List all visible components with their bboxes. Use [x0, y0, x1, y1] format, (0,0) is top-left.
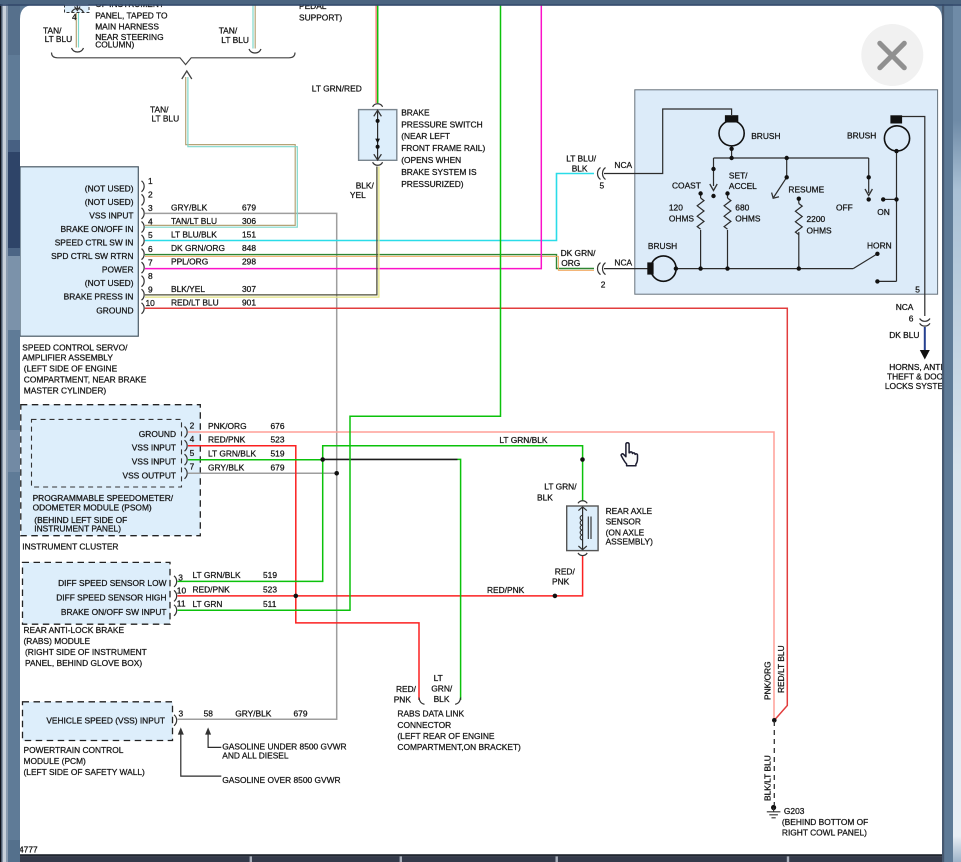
svg-text:LT: LT: [434, 673, 443, 683]
svg-text:RED/LT BLU: RED/LT BLU: [171, 297, 219, 307]
svg-text:3: 3: [148, 203, 153, 213]
svg-text:RESUME: RESUME: [788, 185, 824, 195]
svg-text:HORNS, ANTI-: HORNS, ANTI-: [889, 362, 946, 372]
svg-text:THEFT & DOOR: THEFT & DOOR: [887, 371, 949, 381]
svg-text:680: 680: [735, 202, 749, 212]
svg-text:YEL: YEL: [350, 190, 366, 200]
svg-text:MAIN HARNESS: MAIN HARNESS: [95, 21, 159, 31]
svg-text:RED/LT BLU: RED/LT BLU: [776, 645, 786, 693]
svg-text:COMPARTMENT, NEAR BRAKE: COMPARTMENT, NEAR BRAKE: [24, 375, 147, 385]
svg-text:120: 120: [669, 202, 683, 212]
svg-text:8: 8: [148, 271, 153, 281]
svg-text:519: 519: [263, 570, 277, 580]
svg-text:BLK: BLK: [537, 492, 553, 502]
svg-text:LT BLU: LT BLU: [152, 114, 180, 124]
svg-text:4: 4: [148, 217, 153, 227]
svg-text:BRAKE PRESS IN: BRAKE PRESS IN: [64, 292, 134, 302]
svg-text:4: 4: [72, 12, 77, 22]
svg-text:PNK/ORG: PNK/ORG: [763, 661, 773, 700]
svg-text:BLK: BLK: [572, 164, 588, 174]
svg-text:LT GRN/BLK: LT GRN/BLK: [499, 435, 548, 445]
svg-text:2: 2: [601, 280, 606, 290]
svg-text:RED/PNK: RED/PNK: [487, 585, 525, 595]
svg-text:SPD CTRL SW RTRN: SPD CTRL SW RTRN: [51, 251, 133, 261]
svg-text:OHMS: OHMS: [807, 225, 833, 235]
svg-text:DIFF SPEED SENSOR LOW: DIFF SPEED SENSOR LOW: [58, 578, 167, 588]
svg-text:5: 5: [600, 181, 605, 191]
svg-text:ODOMETER MODULE (PSOM): ODOMETER MODULE (PSOM): [33, 502, 152, 512]
svg-text:10: 10: [146, 298, 156, 308]
svg-text:PANEL, BEHIND GLOVE BOX): PANEL, BEHIND GLOVE BOX): [25, 658, 142, 668]
svg-text:523: 523: [263, 584, 277, 594]
svg-text:2: 2: [190, 420, 195, 430]
svg-text:VSS INPUT: VSS INPUT: [89, 210, 133, 220]
svg-text:LT GRN/BLK: LT GRN/BLK: [208, 449, 257, 459]
svg-text:OHMS: OHMS: [735, 214, 761, 224]
svg-text:SUPPORT): SUPPORT): [299, 12, 342, 22]
svg-text:VEHICLE SPEED (VSS) INPUT: VEHICLE SPEED (VSS) INPUT: [46, 715, 165, 725]
svg-text:6: 6: [148, 244, 153, 254]
svg-text:ORG: ORG: [561, 258, 580, 268]
svg-text:NCA: NCA: [614, 160, 632, 170]
svg-text:RIGHT COWL PANEL): RIGHT COWL PANEL): [782, 827, 867, 837]
svg-text:COAST: COAST: [672, 180, 701, 190]
svg-text:(LEFT SIDE OF SAFETY WALL): (LEFT SIDE OF SAFETY WALL): [24, 767, 146, 777]
svg-text:RED/PNK: RED/PNK: [208, 435, 246, 445]
svg-text:10: 10: [177, 586, 187, 596]
svg-text:TAN/: TAN/: [219, 26, 238, 36]
svg-text:GRY/BLK: GRY/BLK: [171, 203, 208, 213]
svg-text:HORN: HORN: [867, 241, 892, 251]
svg-text:RED/PNK: RED/PNK: [193, 584, 231, 594]
svg-text:BRAKE SYSTEM IS: BRAKE SYSTEM IS: [401, 167, 477, 177]
svg-text:BRUSH: BRUSH: [751, 131, 780, 141]
svg-text:LOCKS SYSTEM: LOCKS SYSTEM: [885, 381, 950, 391]
svg-text:3: 3: [179, 708, 184, 718]
svg-text:RABS DATA LINK: RABS DATA LINK: [397, 708, 464, 718]
svg-text:DK GRN/ORG: DK GRN/ORG: [171, 243, 225, 253]
svg-text:DIFF SPEED SENSOR HIGH: DIFF SPEED SENSOR HIGH: [56, 592, 166, 602]
svg-text:307: 307: [242, 284, 256, 294]
svg-text:151: 151: [242, 230, 256, 240]
svg-text:7: 7: [190, 462, 195, 472]
svg-text:BLK/YEL: BLK/YEL: [171, 284, 205, 294]
svg-text:SPEED CONTROL SERVO/: SPEED CONTROL SERVO/: [22, 343, 128, 353]
svg-text:PRESSURIZED): PRESSURIZED): [401, 179, 464, 189]
svg-text:BRAKE: BRAKE: [401, 107, 430, 117]
svg-text:AMPLIFIER ASSEMBLY: AMPLIFIER ASSEMBLY: [22, 352, 113, 362]
svg-text:511: 511: [263, 599, 277, 609]
svg-text:679: 679: [294, 708, 308, 718]
svg-text:(RABS) MODULE: (RABS) MODULE: [24, 636, 91, 646]
svg-text:PNK: PNK: [394, 695, 412, 705]
svg-text:MASTER CYLINDER): MASTER CYLINDER): [24, 385, 107, 395]
svg-text:SENSOR: SENSOR: [606, 517, 641, 527]
svg-text:BLK: BLK: [434, 694, 450, 704]
svg-text:2200: 2200: [807, 214, 826, 224]
svg-text:BRUSH: BRUSH: [648, 241, 677, 251]
svg-text:519: 519: [271, 449, 285, 459]
svg-text:RED/: RED/: [396, 684, 417, 694]
svg-text:PNK: PNK: [552, 576, 570, 586]
svg-text:306: 306: [242, 216, 256, 226]
svg-text:ACCEL: ACCEL: [729, 181, 757, 191]
svg-text:VSS OUTPUT: VSS OUTPUT: [122, 470, 176, 480]
svg-text:POWERTRAIN CONTROL: POWERTRAIN CONTROL: [24, 745, 124, 755]
svg-text:679: 679: [271, 462, 285, 472]
svg-text:FRONT FRAME RAIL): FRONT FRAME RAIL): [401, 143, 485, 153]
svg-text:(LEFT REAR OF ENGINE: (LEFT REAR OF ENGINE: [397, 731, 495, 741]
svg-text:ON: ON: [877, 207, 890, 217]
svg-text:LT GRN: LT GRN: [193, 599, 223, 609]
svg-text:LT GRN/: LT GRN/: [544, 481, 577, 491]
svg-text:PNK/ORG: PNK/ORG: [208, 421, 247, 431]
svg-text:58: 58: [204, 708, 214, 718]
svg-text:(NEAR LEFT: (NEAR LEFT: [401, 131, 450, 141]
svg-text:LT GRN/RED: LT GRN/RED: [312, 84, 362, 94]
svg-text:SET/: SET/: [729, 171, 748, 181]
svg-text:DK GRN/: DK GRN/: [561, 248, 597, 258]
svg-text:PANEL, TAPED TO: PANEL, TAPED TO: [95, 11, 168, 21]
svg-text:NCA: NCA: [614, 258, 632, 268]
svg-text:676: 676: [271, 421, 285, 431]
svg-text:5: 5: [190, 448, 195, 458]
svg-text:BLK/LT BLU: BLK/LT BLU: [763, 755, 773, 801]
svg-text:GRY/BLK: GRY/BLK: [235, 708, 272, 718]
svg-text:(BEHIND BOTTOM OF: (BEHIND BOTTOM OF: [782, 817, 868, 827]
svg-text:848: 848: [242, 243, 256, 253]
svg-text:BRAKE ON/OFF SW INPUT: BRAKE ON/OFF SW INPUT: [61, 607, 167, 617]
svg-text:AND ALL DIESEL: AND ALL DIESEL: [222, 751, 289, 761]
svg-text:3: 3: [178, 572, 183, 582]
svg-text:LT BLU: LT BLU: [221, 35, 249, 45]
svg-text:INSTRUMENT PANEL): INSTRUMENT PANEL): [34, 524, 121, 534]
svg-text:7: 7: [148, 257, 153, 267]
svg-text:LT BLU: LT BLU: [45, 34, 73, 44]
svg-text:RED/: RED/: [555, 567, 576, 577]
svg-text:G203: G203: [784, 806, 805, 816]
svg-text:CONNECTOR: CONNECTOR: [397, 720, 451, 730]
svg-text:INSTRUMENT CLUSTER: INSTRUMENT CLUSTER: [22, 541, 118, 551]
svg-text:(RIGHT SIDE OF INSTRUMENT: (RIGHT SIDE OF INSTRUMENT: [25, 647, 147, 657]
svg-text:5: 5: [915, 285, 920, 295]
svg-text:2: 2: [148, 190, 153, 200]
svg-text:REAR AXLE: REAR AXLE: [606, 506, 653, 516]
svg-text:4: 4: [190, 434, 195, 444]
svg-text:(NOT USED): (NOT USED): [85, 197, 134, 207]
svg-text:BLK/: BLK/: [356, 181, 375, 191]
svg-text:GROUND: GROUND: [139, 429, 176, 439]
svg-text:GASOLINE OVER 8500 GVWR: GASOLINE OVER 8500 GVWR: [222, 775, 340, 785]
svg-text:9: 9: [148, 284, 153, 294]
svg-text:DK BLU: DK BLU: [889, 330, 919, 340]
svg-text:TAN/LT BLU: TAN/LT BLU: [171, 216, 217, 226]
svg-text:VSS INPUT: VSS INPUT: [132, 457, 176, 467]
svg-text:PPL/ORG: PPL/ORG: [171, 257, 208, 267]
svg-text:1: 1: [148, 176, 153, 186]
svg-text:NCA: NCA: [896, 302, 914, 312]
svg-text:298: 298: [242, 257, 256, 267]
svg-text:SPEED CTRL SW IN: SPEED CTRL SW IN: [55, 238, 134, 248]
svg-text:OHMS: OHMS: [669, 214, 695, 224]
svg-text:(NOT USED): (NOT USED): [85, 278, 134, 288]
svg-text:11: 11: [177, 599, 186, 609]
svg-text:ASSEMBLY): ASSEMBLY): [606, 537, 654, 547]
svg-text:VSS INPUT: VSS INPUT: [132, 443, 176, 453]
svg-text:COLUMN): COLUMN): [95, 39, 134, 49]
svg-text:(OPENS WHEN: (OPENS WHEN: [401, 155, 461, 165]
svg-text:REAR ANTI-LOCK BRAKE: REAR ANTI-LOCK BRAKE: [24, 625, 125, 635]
svg-text:MODULE (PCM): MODULE (PCM): [24, 756, 87, 766]
svg-text:901: 901: [242, 297, 256, 307]
svg-text:5: 5: [148, 230, 153, 240]
svg-text:PRESSURE SWITCH: PRESSURE SWITCH: [401, 119, 482, 129]
svg-text:GRY/BLK: GRY/BLK: [208, 462, 245, 472]
svg-text:BRAKE ON/OFF IN: BRAKE ON/OFF IN: [60, 224, 133, 234]
svg-text:(LEFT SIDE OF ENGINE: (LEFT SIDE OF ENGINE: [24, 364, 118, 374]
svg-text:523: 523: [271, 435, 285, 445]
svg-text:LT BLU/: LT BLU/: [566, 154, 597, 164]
svg-text:GROUND: GROUND: [96, 305, 133, 315]
svg-text:BRUSH: BRUSH: [847, 131, 876, 141]
svg-text:(NOT USED): (NOT USED): [85, 183, 134, 193]
svg-text:COMPARTMENT,ON BRACKET): COMPARTMENT,ON BRACKET): [397, 742, 521, 752]
svg-text:LT GRN/BLK: LT GRN/BLK: [193, 570, 242, 580]
svg-text:GRN/: GRN/: [431, 684, 453, 694]
svg-text:679: 679: [242, 203, 256, 213]
svg-text:OFF: OFF: [836, 203, 853, 213]
svg-text:POWER: POWER: [102, 265, 134, 275]
svg-text:6: 6: [909, 314, 914, 324]
svg-text:4777: 4777: [19, 845, 38, 855]
svg-text:LT BLU/BLK: LT BLU/BLK: [171, 230, 217, 240]
